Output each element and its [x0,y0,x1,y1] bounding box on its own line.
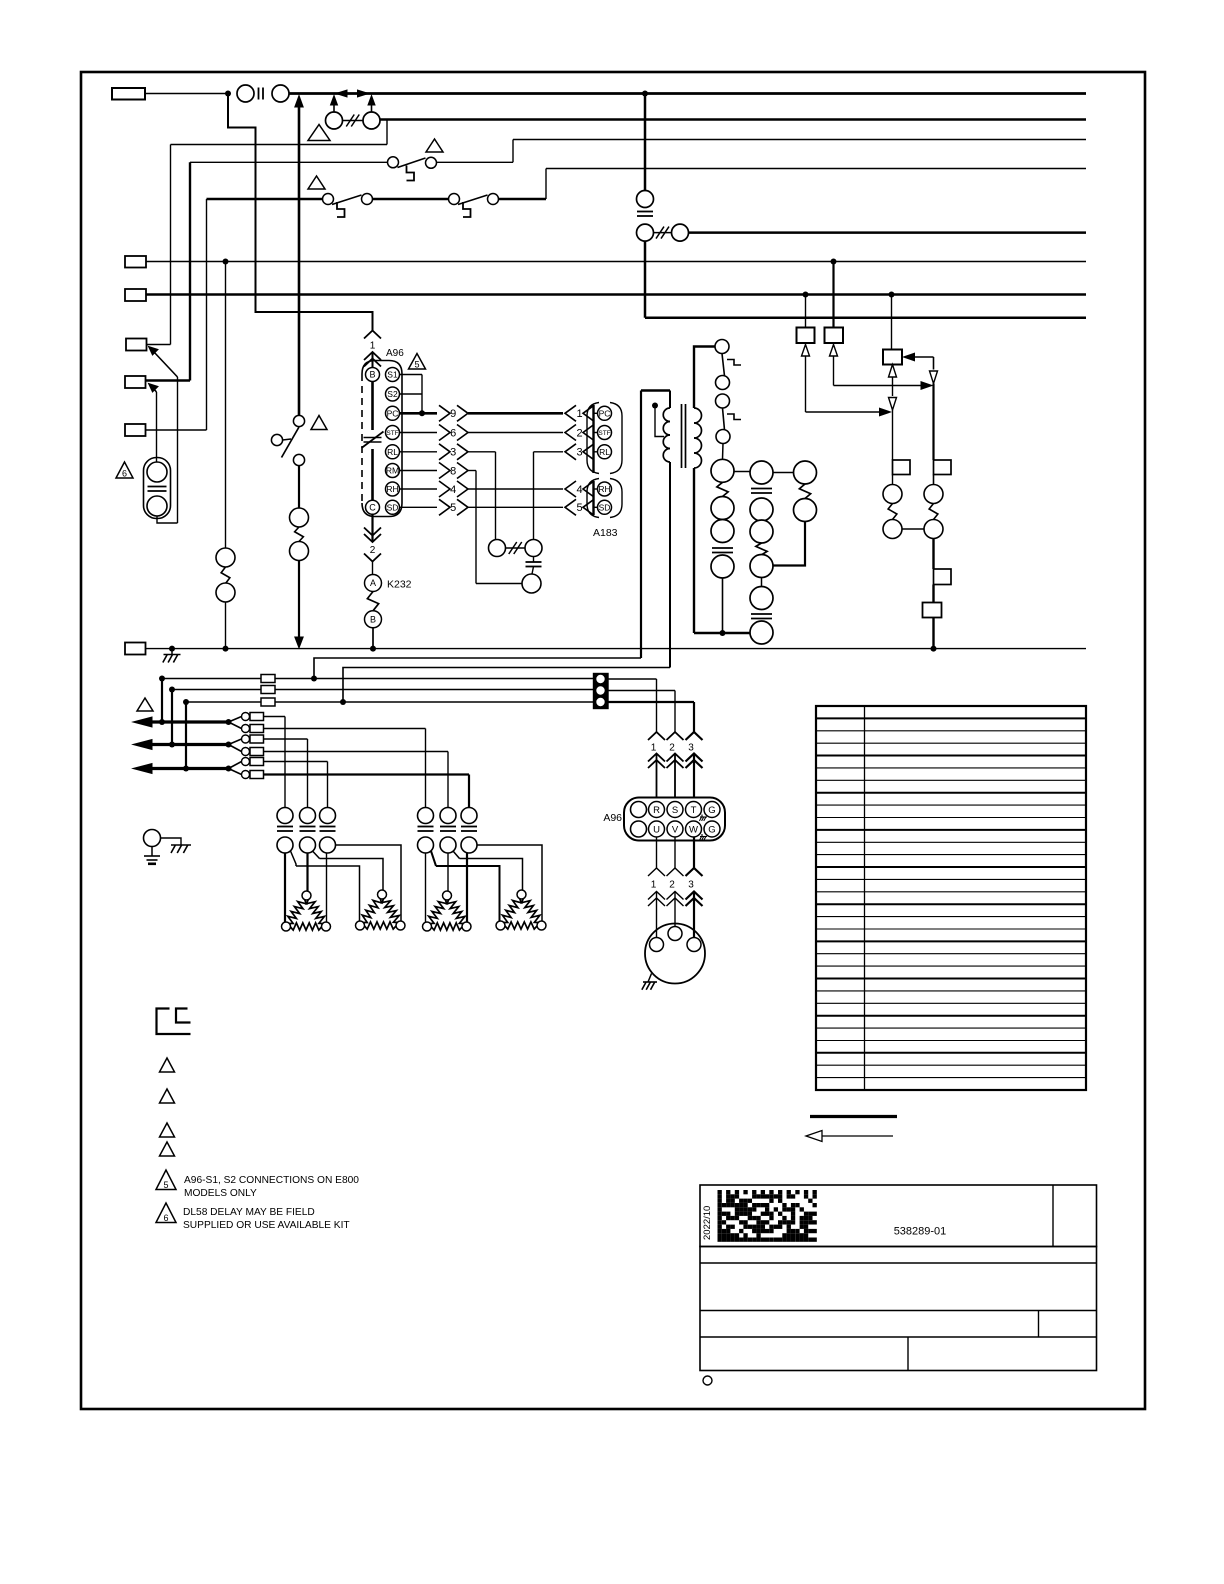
svg-text:1: 1 [651,743,657,754]
svg-text:C: C [369,503,376,513]
node line C transformer tap [340,699,346,705]
svg-text:538289-01: 538289-01 [894,1226,947,1238]
capacitor below fuse [526,561,542,563]
limit switch S43 lower contact [418,837,434,853]
relay K3 box [797,328,815,344]
fusible link F1 contact B [363,112,380,129]
wire colE to HE3 apex [447,853,449,891]
wire S18 to K1 coil [298,466,300,509]
gas valve GV1 terminal 1 [711,459,734,482]
A183 pin PC [598,406,612,420]
limit switch S41 upper contact [300,808,316,824]
svg-text:PC: PC [599,408,611,418]
inline fuse box [923,603,942,618]
arrow stem into L1 at x371 [371,99,373,112]
note triangle 5 [409,354,426,370]
A96 pin B [366,368,380,382]
limit switch S45 upper contact [461,808,477,824]
limit switch S47 contact A [716,394,730,408]
wire E2 line y144 [171,144,388,146]
node bus261 junction x833 [831,259,837,265]
flame rollout winding [799,484,810,499]
node bus294 junction x891 [889,292,895,298]
arrow left into K5 [904,353,915,361]
wire drop A [161,679,163,723]
wire secondary bottom lead [693,468,695,633]
wire to motor lead 3 [693,892,695,938]
outer border frame [81,72,1145,1409]
switch S30 contact B [426,157,437,168]
wire drop B [171,690,173,745]
pressure switch S18 top contact [293,415,304,426]
wire S20 to riser [499,198,547,200]
revision arrow [822,1135,893,1137]
note triangle 2 [426,139,443,152]
wire RH row [400,488,438,490]
svg-text:S1: S1 [387,370,398,380]
node neutral junction x933 [931,646,937,652]
open arrow down on K5 wire [889,398,897,411]
wire colE jog to HE4 apex [453,851,460,859]
svg-text:V: V [672,824,679,835]
wire conn5 to limit col C [264,761,328,763]
wire colD jog to HE4 left [431,851,436,866]
svg-text:5: 5 [576,502,582,514]
flame rollout terminal 12 [794,499,817,522]
A96 pin STF [386,426,400,440]
svg-text:2: 2 [576,427,582,439]
wire switch S30 line left [190,161,388,163]
svg-text:1: 1 [576,408,582,420]
switch S15 contact A [323,194,334,205]
terminal E5 spade [125,376,146,388]
wire K1 to neutral bus with arrow [298,561,300,640]
wire primary top stub [669,391,671,409]
limit switch S10 contact B [716,376,730,390]
wire capacitor to terminal [532,567,534,575]
ignitor K232 element [367,592,378,611]
wire switch chain S15 line left [207,198,323,200]
svg-text:RL: RL [599,447,610,457]
fuse block C [261,698,275,706]
switch S20 contact A [449,194,460,205]
switch S20 contact B [488,194,499,205]
wire row8 jog [468,470,476,472]
capacitor in GV column [712,547,733,549]
A96 pin RM [386,464,400,478]
transformer T1 core [681,404,683,468]
A96 pin S1 [386,368,400,382]
A96 plug pin G bottom [704,821,720,837]
svg-text:B: B [369,370,375,380]
node line C drop [183,699,189,705]
title block pilot hole [703,1376,712,1385]
heating element HE3 [429,899,447,924]
limit switch S47 thermal mark [727,414,741,420]
relay K2 coil winding [221,567,230,584]
wire below contact [932,585,934,603]
svg-text:3: 3 [450,447,456,459]
wire RM row [400,470,438,472]
svg-text:3: 3 [688,880,694,891]
wire conn6 to limit col F [264,773,470,775]
node neutral ground tap [169,646,175,652]
node line A transformer tap [311,676,317,682]
limit switch S47 contact B [716,430,730,444]
switch S20 thermal mark [463,202,471,217]
wire to motor lead 2 [674,892,676,930]
switch S30 blade [398,158,426,168]
svg-text:A96-S1, S2 CONNECTIONS ON E800: A96-S1, S2 CONNECTIONS ON E800 [184,1175,359,1186]
harness chevron in pin 4 [565,481,576,497]
wire row4 to A183-4 [468,488,563,490]
node arrow2 fan [226,742,232,748]
datamatrix barcode [718,1190,722,1194]
flame sensor fuse element [506,547,526,549]
svg-text:2: 2 [370,545,376,556]
splice connector 1 [229,717,242,723]
A96 plug pin V [667,821,683,837]
delay DL58 terminal B [147,496,167,516]
switch S15 contact B [362,194,373,205]
equipment ground legend symbol [157,1009,191,1035]
wire secondary rail [694,632,750,634]
A96 pin SD [386,500,400,514]
svg-text:A: A [370,578,376,588]
svg-text:R: R [653,805,660,816]
A96 plug pin S [667,802,683,818]
wire riser x206 down [206,199,208,430]
capacitor door interlock [637,211,653,213]
plug chevron upper pin 2 [667,732,684,740]
switch S15 thermal mark [337,202,345,217]
open arrow up into K5 [889,365,897,378]
note triangle blank 2 [160,1089,175,1103]
fuse block A [261,675,275,683]
node arrow2 drop [169,742,175,748]
switch S30 thermal mark [407,166,415,181]
plug chevron lower pair pin 1 [648,754,665,762]
chassis ground at neutral [171,649,173,655]
limit switch S44 element [440,826,456,828]
fusible link F2 contact [672,224,689,241]
terminal E4 spade [126,339,147,351]
wire row6 to A183-2 [468,432,563,434]
plug chevron lower pair pin 2 [667,754,684,762]
A96 pin RL [386,445,400,459]
relay K6 coil terminal B [883,520,902,539]
A183 connector shell left 1-3 [587,403,599,474]
A96 plug pin R [649,802,665,818]
A96 plug blank pin top [631,802,647,818]
relay K1 coil terminal A [290,508,309,527]
terminal E7 spade [125,643,146,655]
A96 plug pin G top [704,802,720,818]
note triangle blank 4 [160,1142,175,1156]
motor chevron upper pin 2 [667,868,684,876]
flame rollout terminal 11 [794,461,817,484]
wire riser x177 (DL58 return) [177,377,179,523]
svg-text:STF: STF [386,430,398,437]
wire TB1 to plug pin 3 [608,701,694,703]
node rail junction [720,630,726,636]
wire K4 link right with arrow [834,385,921,387]
splice connector 2 [229,722,242,729]
svg-text:S2: S2 [387,389,398,399]
svg-text:B: B [370,615,376,625]
wire to coil K6 [892,475,894,485]
harness chevron out pin 3 [439,444,450,460]
wire colB jog to HE2 apex [313,851,320,859]
wire bus 4 y168 [546,168,1086,170]
svg-text:4: 4 [576,484,582,496]
motor chevron upper pin 3 [686,868,703,876]
A183 connector shell left 4-5 [587,479,599,518]
wire K6 link [902,528,924,530]
A183 pin RL [598,445,612,459]
wire E5 thick [146,379,191,381]
plug chevron 2 upper pair [364,528,381,536]
relay K5 box [883,350,902,365]
relay K1 coil winding [295,527,304,542]
limit switch S40 element [277,826,293,828]
control circuit terminal 7 [750,520,773,543]
wire SD row [400,506,438,508]
A96 plug pin W [686,821,702,837]
open arrow down x933 [930,371,938,384]
limit switch S10 thermal mark [727,360,741,366]
A96 plug pin T [686,802,702,818]
ignitor K232 terminal B [365,611,382,628]
svg-text:S: S [672,805,678,816]
wire colC to HE1 right [326,853,328,922]
wire plug 2 down [674,838,676,869]
wire riser x387 bus2 to E2 line [386,120,388,145]
relay K2 coil terminal B [216,583,235,602]
svg-text:2: 2 [669,743,675,754]
wire to motor lead 1 [656,892,658,938]
terminal E2 spade [125,256,146,268]
pressure switch S18 blade [282,427,300,458]
limit switch S41 lower contact [300,837,316,853]
svg-text:K232: K232 [387,579,412,591]
plug chevron 1 lower pair [364,352,381,360]
note triangle 4 [311,416,327,430]
sensor terminal circle [522,574,541,593]
wire stub to relay K5 [891,295,893,350]
wire E1 to junction [145,93,228,95]
heating element HE1 [288,899,307,924]
control circuit terminal 5 [750,461,773,484]
splice connector 6 [229,769,242,775]
wire colC jog to HE2 right [336,845,402,921]
wire primary lead 1 [641,389,670,391]
wire neutral bus [146,648,1087,650]
A183 connector shell right 1-3 [610,403,622,474]
svg-text:U: U [653,824,660,835]
note triangle 6 (DL58) [116,462,133,478]
wire K2 to neutral bus [225,602,227,649]
wire pressure switch riser x299 [298,104,301,416]
limit switch S10 blade [722,354,725,377]
wire colF jog to HE4 right [477,845,542,921]
wire jog from L1 to A96-B [228,94,373,331]
A96 connector body [362,361,402,517]
relay K1 coil terminal B [290,542,309,561]
wire TB1 to plug pin 2 [608,690,675,692]
control circuit terminal 8 [750,555,773,578]
wire DL58 bottom to riser [157,516,178,523]
capacitor col2 [751,488,772,490]
capacitor symbol between S21 contacts [258,88,260,100]
svg-text:SD: SD [599,502,611,512]
motor terminal 2 [668,927,682,941]
A96 plug blank pin bottom [631,821,647,837]
terminal E3 spade [125,289,146,301]
A96 pin PC [386,406,400,420]
splice connector 5 [229,762,242,769]
relay coil winding col2 [756,543,767,555]
limit switch S43 element [418,826,434,828]
wire transformer tap riser A [314,658,641,679]
note triangle 5 legend [156,1170,176,1190]
switch S15 blade [332,195,362,205]
splice connector 4 [229,745,242,752]
motor chevron lower pair pin 1 [648,892,665,900]
limit switch S41 element [300,826,316,828]
svg-text:A96: A96 [603,812,622,824]
switch S20 blade [458,195,488,205]
A183 pin SD [598,500,612,514]
revision bar [810,1115,897,1118]
open arrow up into K4 [830,345,838,357]
terminal E6 spade [125,424,146,436]
field wiring arrow to E5 [149,384,159,393]
svg-text:2022/10: 2022/10 [702,1206,713,1240]
relay K7 coil winding [929,504,938,520]
wire L1 bus [289,92,1086,95]
wire DL58 feed [156,392,158,462]
relay K7 coil terminal A [924,485,943,504]
wire colD to HE3 left [425,853,427,922]
pressure switch S18 NC contact [271,434,282,445]
svg-text:4: 4 [450,484,456,496]
wire conn1 to limit col A [264,716,286,718]
wire K3 down [805,356,807,412]
wire riser x190 down [189,162,191,380]
motor chevron lower pair pin 2 [667,892,684,900]
A96 pin S2 [386,387,400,401]
harness chevron out pin 4 [439,481,450,497]
motor terminal 1 [650,938,664,952]
heating element HE2 [362,898,382,923]
title block frame [700,1185,1097,1247]
transformer polarity dot [652,403,658,409]
svg-text:RM: RM [386,466,399,476]
svg-text:6: 6 [163,1213,168,1223]
wire GV column to rail [722,578,724,633]
note triangle 3 [308,176,325,189]
svg-text:RL: RL [387,447,398,457]
gas valve GV1 terminal 4 [711,555,734,578]
wire row5 to A183-5 [468,506,563,508]
wire bus 2 from F1 [380,118,1086,121]
wire to coil K7 [933,475,935,485]
wire lug to chassis ground [161,838,182,845]
wire drop C [185,702,187,769]
motor chassis ground [648,974,652,983]
wire K5 junction down [892,410,894,460]
delay DL58 capsule [144,458,171,519]
wire conn3 to limit col B [264,738,308,740]
limit switch S42 element [320,826,336,828]
node S1S2-PC junction [419,410,425,416]
wire riser x645 lower [644,241,647,318]
wire plug 1 down [656,838,658,869]
wire colF to HE3 right [466,853,468,922]
wire x933 to contact [932,384,934,461]
wire A183-3 jog [534,451,564,453]
contact box K5-1 [934,569,952,585]
fusible link F1 contact A [326,112,343,129]
svg-text:5: 5 [414,360,419,370]
arrow into L1 from pressure switch riser [295,96,303,108]
wire conn2 to limit col D [264,728,426,730]
node L1 to ignition riser [642,91,648,97]
blower motor B3 body [645,924,705,984]
field power arrow L3 [133,764,152,774]
node arrow3 drop [183,766,189,772]
wire colB to HE1 apex [306,853,308,891]
wire K4 down [833,356,835,386]
limit switch S44 upper contact [440,808,456,824]
wire STF row [400,432,438,434]
limit switch S10 contact A [715,340,729,354]
note triangle 1 [308,125,330,141]
wire S15 to S20 [373,198,449,200]
wire bus y317 thick [645,317,1086,320]
wire feed line C [186,701,594,703]
svg-text:6: 6 [122,469,127,479]
svg-text:RH: RH [386,484,398,494]
gas valve GV1 winding [717,482,728,496]
node bus261 junction x225 [223,259,229,265]
wire C pin down [371,514,373,542]
svg-text:3: 3 [576,447,582,459]
motor chevron lower pair pin 3 [686,892,703,900]
limit switch S42 upper contact [320,808,336,824]
svg-text:A183: A183 [593,527,618,539]
plug chevron upper pin 1 [648,732,665,740]
svg-text:3: 3 [688,743,694,754]
wire to neutral bus [932,618,934,649]
fuse block B [261,686,275,694]
svg-text:T: T [691,805,697,816]
limit switch S21 contact B [272,85,289,102]
pressure switch S18 bottom contact [293,454,304,465]
wire TB1 to plug pin 1 [608,678,657,680]
capacitor col2 lower [751,613,772,615]
wire row9 to A183-1 [468,412,563,415]
svg-text:5: 5 [450,502,456,514]
ignitor K232 terminal A [365,575,382,592]
wire K7 down thick [932,539,934,570]
node line B drop [169,687,175,693]
wire bus y232 thick [689,231,1087,234]
wire secondary top lead [694,347,715,409]
wire K3 link right with arrow [806,411,880,413]
wire E4 to riser [147,344,171,346]
